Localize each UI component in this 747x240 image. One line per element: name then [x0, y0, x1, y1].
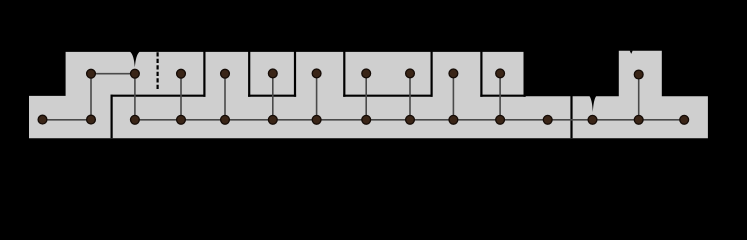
skip list gray silhouette	[29, 51, 708, 138]
column wire c8	[365, 74, 367, 120]
top node t1	[87, 69, 96, 78]
bottom node b2	[87, 115, 96, 124]
top node t3	[177, 69, 186, 78]
column wire c7	[316, 74, 318, 120]
column wire c10	[452, 74, 454, 120]
bottom node b14	[634, 115, 643, 124]
column wire c3	[134, 74, 136, 120]
top level wire	[91, 73, 135, 75]
box 3 right edge	[523, 51, 525, 97]
top node t2	[131, 69, 140, 78]
top node t9	[449, 69, 458, 78]
bottom node b9	[406, 115, 415, 124]
top node t7	[362, 69, 371, 78]
box 2 bottom edge	[343, 95, 432, 97]
bottom node b10	[449, 115, 458, 124]
box 1 bottom edge	[248, 95, 296, 97]
top node t10	[496, 69, 505, 78]
top node t8	[406, 69, 415, 78]
bottom node b15	[680, 115, 689, 124]
bottom node b12	[543, 115, 552, 124]
bottom wire main run	[135, 119, 684, 121]
top node t6	[312, 69, 321, 78]
bottom node b5	[221, 115, 230, 124]
top node t11	[634, 70, 643, 79]
box 3 bottom edge	[480, 95, 525, 97]
separator 1	[110, 95, 112, 139]
box A bottom edge	[111, 95, 206, 97]
box 1 right edge	[294, 51, 296, 97]
column wire c2	[90, 74, 92, 120]
bottom node b11	[496, 115, 505, 124]
bottom node b1	[38, 115, 47, 124]
bottom node b4	[177, 115, 186, 124]
box 3 left edge	[480, 51, 482, 97]
box 2 right edge	[431, 51, 433, 97]
arrow 2 head	[588, 94, 598, 112]
dashed split line	[157, 52, 159, 90]
arrow 1 head	[130, 51, 140, 67]
bottom node b13	[588, 115, 597, 124]
arrow 1 shaft	[134, 40, 136, 53]
column wire c11	[499, 74, 501, 120]
box 1 left edge	[248, 51, 250, 97]
column wire c4	[180, 74, 182, 120]
top node t4	[221, 69, 230, 78]
arrow 2 shaft	[592, 84, 594, 96]
top node t5	[268, 69, 277, 78]
box 2 left edge	[343, 51, 345, 97]
bottom node b3	[131, 115, 140, 124]
column wire c6	[272, 74, 274, 120]
column wire c14	[638, 75, 640, 120]
column wire c5	[224, 74, 226, 120]
bottom wire left run	[43, 119, 92, 121]
bottom node b6	[268, 115, 277, 124]
arrow 3 tip	[630, 51, 633, 54]
bottom node b8	[362, 115, 371, 124]
column wire c9	[409, 74, 411, 120]
separator 2	[570, 95, 572, 139]
bottom node b7	[312, 115, 321, 124]
box A right edge	[203, 51, 205, 97]
